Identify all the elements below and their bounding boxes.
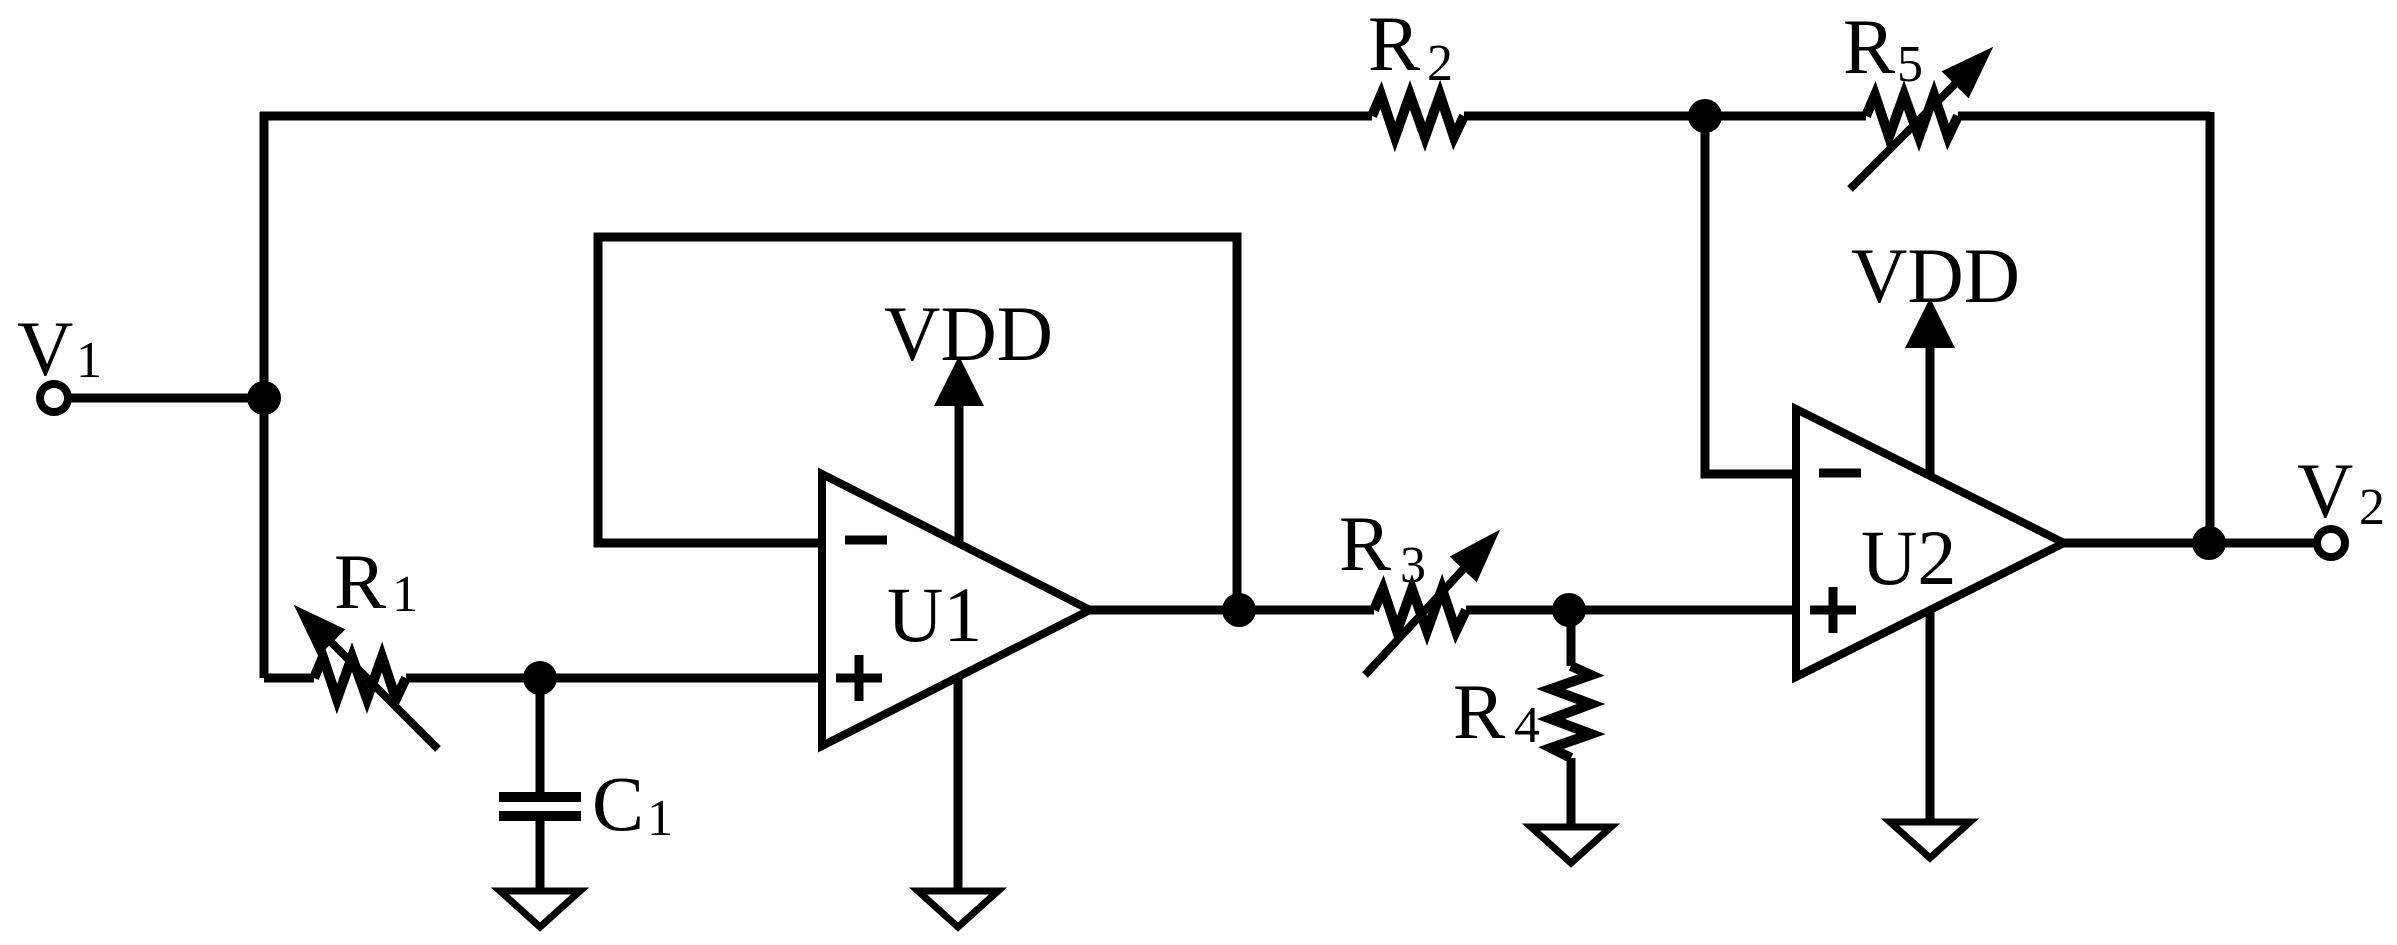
- svg-text:2: 2: [1427, 35, 1453, 92]
- label R5: [1843, 3, 1923, 93]
- op-amp U1 non-inverting pin (+): [836, 655, 882, 701]
- svg-text:R: R: [1453, 668, 1505, 755]
- label C1: [592, 760, 673, 847]
- svg-text:1: 1: [392, 566, 418, 623]
- resistor R4: [1551, 666, 1591, 758]
- power VDD pin line U1: [955, 400, 964, 560]
- svg-text:VDD: VDD: [884, 290, 1053, 377]
- op-amp U1 body: [822, 474, 1090, 746]
- svg-text:4: 4: [1514, 697, 1540, 754]
- resistor R1 wiper arrow: [298, 609, 438, 749]
- power VDD arrowhead U2: [1905, 298, 1955, 348]
- node A junction: [247, 381, 281, 415]
- wire U2 negative supply pin to ground: [1926, 590, 1935, 822]
- wire R4 to ground: [1567, 758, 1576, 827]
- label R4: [1453, 668, 1540, 755]
- wire node C to U1 non-inverting input: [540, 674, 826, 683]
- svg-text:V: V: [17, 305, 73, 392]
- terminal V2: [2317, 529, 2345, 557]
- wire R3 to node D: [1466, 606, 1569, 615]
- ground (U2): [1890, 822, 1970, 858]
- label R3: [1339, 500, 1426, 594]
- wire node C to capacitor C1: [536, 678, 545, 792]
- op-amp U2 inverting pin (-): [1819, 469, 1861, 478]
- wire U1 negative supply pin to ground: [954, 640, 963, 891]
- svg-text:C: C: [592, 760, 644, 847]
- wire R1 to node C: [406, 674, 540, 683]
- svg-text:R: R: [334, 538, 386, 625]
- node E junction: [2192, 526, 2226, 560]
- wire capacitor C1 to ground: [536, 821, 545, 891]
- svg-text:U1: U1: [887, 571, 982, 658]
- wire node E to terminal V2: [2209, 539, 2318, 548]
- svg-text:R: R: [1368, 0, 1420, 87]
- wire R2 to node B: [1464, 112, 1705, 121]
- svg-text:2: 2: [2359, 479, 2385, 536]
- resistor R5 (variable) zigzag: [1866, 95, 1958, 137]
- wire feedback U1 output to U1 inverting input: [598, 237, 1237, 610]
- resistor R1 (variable) zigzag: [314, 657, 406, 699]
- op-amp U2 non-inverting pin (+): [1810, 587, 1856, 633]
- svg-text:1: 1: [647, 790, 673, 847]
- resistor R2: [1372, 95, 1464, 137]
- ground (R4): [1531, 827, 1611, 863]
- ground (U1): [918, 891, 998, 927]
- wire node D down to R4: [1567, 610, 1576, 666]
- wire top rail to R2: [260, 112, 1372, 121]
- wire left bus (node A vertical): [260, 112, 269, 678]
- wire node B to R5: [1705, 112, 1866, 121]
- label V1: [17, 305, 102, 392]
- label R1: [334, 538, 418, 625]
- node B junction: [1688, 99, 1722, 133]
- wire right bus down to output node: [2206, 112, 2215, 543]
- svg-text:1: 1: [76, 332, 102, 389]
- capacitor C1 plates: [499, 797, 581, 816]
- label V2: [2297, 447, 2385, 536]
- svg-text:R: R: [1339, 500, 1391, 587]
- power VDD pin line U2: [1926, 342, 1935, 495]
- svg-text:5: 5: [1897, 36, 1923, 93]
- wire node B down to U2 inverting input: [1705, 116, 1800, 474]
- label R2: [1368, 0, 1453, 92]
- terminal V1: [40, 384, 68, 412]
- node D junction: [1552, 593, 1586, 627]
- svg-text:R: R: [1843, 3, 1895, 90]
- power VDD arrowhead U1: [934, 356, 984, 406]
- node U1 output junction: [1222, 593, 1256, 627]
- svg-text:VDD: VDD: [1851, 232, 2020, 319]
- svg-text:V: V: [2297, 447, 2353, 534]
- ground (C1): [500, 891, 580, 927]
- wire V1 to node A: [68, 394, 264, 403]
- wire node D to U2 non-inverting input: [1569, 606, 1800, 615]
- wire U1 output to R3: [1090, 606, 1374, 615]
- op-amp U1 inverting pin (-): [845, 536, 887, 545]
- resistor R5 wiper arrow: [1850, 51, 1989, 189]
- resistor R3 wiper arrow: [1365, 534, 1496, 675]
- resistor R3 (variable) zigzag: [1374, 589, 1466, 631]
- svg-text:3: 3: [1400, 537, 1426, 594]
- wire U2 output to node E: [2064, 539, 2209, 548]
- wire R5 to right bus corner: [1958, 112, 2210, 121]
- node C junction: [523, 661, 557, 695]
- op-amp U2 body: [1796, 409, 2064, 677]
- wire left bus to R1: [264, 674, 314, 683]
- svg-text:U2: U2: [1861, 514, 1956, 601]
